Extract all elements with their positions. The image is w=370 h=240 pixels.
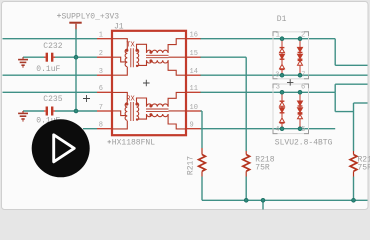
wire row11 to D1 — [200, 91, 335, 93]
wire row6 left stub to pin8 — [83, 128, 97, 130]
node supply/C232 junction — [74, 55, 78, 59]
svg-text:RX: RX — [126, 95, 135, 103]
transformer T1 box — [112, 31, 186, 135]
wire C232 to junction to pin2 stub — [55, 56, 97, 58]
node D1 pin5 — [298, 127, 302, 131]
svg-text:3: 3 — [99, 68, 103, 76]
svg-text:R217: R217 — [186, 156, 195, 175]
D1 bracket section A — [273, 32, 309, 79]
T1 pin stubs right — [186, 39, 201, 129]
choke top winding — [147, 50, 169, 53]
primary winding left column — [125, 49, 127, 67]
pin numbers T1 right — [190, 32, 198, 130]
pin numbers D1 — [275, 31, 305, 134]
node D1 pin3a — [280, 73, 284, 77]
text labels gray — [36, 12, 370, 175]
svg-text:C232: C232 — [43, 42, 62, 51]
origin mark HX label — [108, 140, 112, 144]
svg-text:2: 2 — [301, 31, 305, 39]
svg-text:4: 4 — [275, 126, 279, 134]
wire pin11 internal — [168, 92, 186, 106]
node rail/R218 — [244, 198, 248, 202]
svg-text:SUPPLY0_+3V3: SUPPLY0_+3V3 — [62, 12, 120, 21]
resistor R219 (right, clipped) — [350, 151, 357, 177]
wire vertical into R217 — [201, 111, 203, 148]
wire row2 left (gnd to C232) — [23, 56, 44, 58]
wire vertical right resistor top — [353, 103, 355, 151]
winding phase dots TX — [125, 49, 152, 63]
wire pin8 internal — [112, 121, 127, 129]
svg-text:15: 15 — [190, 50, 198, 58]
wire R217 bottom to rail — [201, 177, 203, 201]
wire row9 to D1 and end — [200, 128, 335, 130]
wire vertical jog of net11 — [334, 84, 336, 92]
D1 bracket section B — [273, 84, 309, 134]
wire row14 to right edge — [200, 74, 368, 76]
node D1 pin6 — [298, 90, 302, 94]
node D1 pin1 — [280, 37, 284, 41]
diode chain D1 section A right — [298, 41, 303, 73]
svg-text:9: 9 — [190, 122, 194, 130]
wire vertical R218 net — [245, 57, 247, 151]
T1 RX section internals — [112, 92, 186, 128]
node D1 pin7 — [298, 73, 302, 77]
wire top right edge net at y103 — [354, 102, 368, 104]
capacitor C232 — [44, 53, 55, 62]
wire choke bottom-left to right column bottom — [137, 60, 147, 66]
svg-text:14: 14 — [190, 68, 198, 76]
svg-text:5: 5 — [301, 126, 305, 134]
wire net11 to right edge — [335, 83, 367, 85]
wire pin7 internal tap — [112, 111, 126, 116]
svg-text:10: 10 — [190, 104, 198, 112]
wire pin16 internal — [168, 39, 186, 53]
core lines left transformer RX — [131, 102, 134, 121]
origin cross C235 — [83, 95, 90, 102]
wire jog to right resistor column — [335, 111, 353, 113]
choke top winding RX — [147, 104, 169, 107]
wire right column top to choke — [137, 44, 147, 53]
wire pin15 internal — [169, 56, 187, 58]
wire row5 left (gnd to C235) — [23, 110, 44, 112]
T1 pin stubs left — [97, 39, 112, 129]
svg-text:J1: J1 — [114, 23, 124, 32]
wire pin2 internal tap — [112, 57, 126, 62]
wire row3 left (net to T1 pin 3) — [3, 74, 98, 76]
D1 bracket corner ticks — [273, 32, 309, 134]
svg-text:2: 2 — [99, 50, 103, 58]
svg-text:SLVU2.8-4BTG: SLVU2.8-4BTG — [275, 139, 333, 148]
wire row16 right to D1 — [200, 38, 335, 40]
node rail/descender — [261, 198, 265, 202]
svg-text:3: 3 — [276, 83, 280, 91]
svg-text:6: 6 — [99, 85, 103, 93]
wire vertical between net11 and lower jog — [334, 92, 336, 111]
choke bottom winding — [147, 60, 169, 63]
secondary winding right column RX — [137, 103, 139, 121]
svg-text:1: 1 — [99, 32, 103, 40]
choke core lines RX — [146, 109, 169, 111]
winding phase dots RX — [125, 103, 152, 117]
wire bottom rail — [202, 199, 368, 201]
svg-text:0.1uF: 0.1uF — [36, 65, 60, 74]
wire row1 left (net to T1 pin 1) — [3, 38, 98, 40]
choke bottom winding RX — [147, 114, 169, 117]
capacitor C235 — [44, 107, 55, 116]
svg-text:3: 3 — [275, 71, 279, 79]
wire pin6 internal — [112, 92, 127, 102]
secondary winding right column — [137, 49, 139, 67]
svg-text:16: 16 — [190, 32, 198, 40]
wire right resistor bottom to rail — [353, 177, 355, 201]
node D1 pin3b — [280, 90, 284, 94]
svg-text:8: 8 — [99, 122, 103, 130]
wire right column top to choke RX — [137, 98, 147, 107]
resistor R217 — [199, 148, 206, 177]
svg-text:11: 11 — [190, 85, 198, 93]
wire to right edge at y65 — [335, 64, 367, 66]
choke core lines — [146, 55, 169, 57]
svg-text:TX: TX — [126, 42, 135, 50]
origin mark supply label — [57, 14, 61, 18]
node rail/right resistor — [352, 198, 356, 202]
svg-text:75R: 75R — [358, 164, 370, 173]
resistor R218 — [243, 151, 250, 177]
wire row15 to corner — [200, 56, 246, 58]
node D1 pin4 — [280, 127, 284, 131]
wire descender below rail — [262, 200, 264, 209]
wire pin3 internal — [112, 67, 127, 75]
wire row10 to corner — [200, 110, 202, 112]
svg-text:1: 1 — [276, 31, 280, 39]
diode chain D1 section A left — [280, 41, 285, 73]
core lines left transformer — [131, 48, 134, 67]
wire choke bottom-left to right column bottom RX — [137, 114, 147, 120]
svg-text:75R: 75R — [255, 164, 270, 173]
wire vertical drop of net16 — [334, 39, 336, 66]
origin cross T1 — [143, 80, 150, 87]
svg-text:7: 7 — [301, 71, 305, 79]
wire pin14 internal — [168, 60, 186, 75]
diode chain D1 section B right — [298, 94, 303, 126]
diode chain D1 section B left — [280, 94, 285, 126]
svg-text:6: 6 — [301, 83, 305, 91]
wire row4 left (net to T1 pin 6) — [3, 91, 98, 93]
svg-text:7: 7 — [99, 104, 103, 112]
supply symbol SUPPLY0_+3V3 — [69, 23, 81, 30]
wire pin10 internal — [169, 110, 187, 112]
ground symbol (C235) — [18, 111, 28, 122]
svg-text:C235: C235 — [43, 95, 62, 104]
node supply/C235 junction — [74, 109, 78, 113]
svg-text:D1: D1 — [277, 15, 287, 24]
wire pin1 internal — [112, 39, 127, 49]
wire supply vertical — [75, 29, 77, 111]
wire pin9 internal — [168, 114, 186, 129]
wire C235 to junction to pin7 stub — [55, 110, 97, 112]
primary winding left column RX — [125, 103, 127, 121]
node D1 pin2 — [298, 37, 302, 41]
svg-text:HX1188FNL: HX1188FNL — [112, 139, 155, 148]
wire R218 bottom to rail — [245, 177, 247, 201]
play button overlay — [32, 119, 90, 177]
origin cross D1 — [287, 79, 293, 85]
T1 TX section internals — [112, 39, 186, 75]
ground symbol (C232) — [18, 57, 28, 68]
pin numbers T1 left — [99, 32, 103, 130]
